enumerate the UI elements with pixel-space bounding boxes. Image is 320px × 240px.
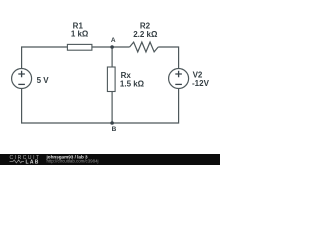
- node A junction dot: [110, 45, 114, 49]
- resistor Rx: [107, 67, 115, 92]
- svg-text:1.5 kΩ: 1.5 kΩ: [120, 79, 145, 88]
- svg-text:1 kΩ: 1 kΩ: [71, 29, 89, 38]
- wire V2 bottom to bottom rail: [112, 89, 179, 123]
- svg-text:B: B: [112, 126, 117, 133]
- voltage source V2: [169, 69, 189, 89]
- resistor R1: [67, 44, 92, 50]
- wire top rail left: V1 top to R1: [22, 47, 68, 68]
- svg-text:http://circuitlab.com/c3984j: http://circuitlab.com/c3984j: [47, 159, 99, 164]
- svg-text:5 V: 5 V: [37, 76, 50, 85]
- V2 plus sign: [175, 71, 182, 78]
- resistor R2 (zigzag): [130, 42, 159, 52]
- V1 plus sign: [18, 71, 25, 78]
- svg-text:2.2 kΩ: 2.2 kΩ: [133, 30, 158, 39]
- wire bottom rail left: node B to V1 bottom: [22, 89, 113, 123]
- wire R1 to node A to R2: [92, 46, 130, 48]
- V2 minus sign: [175, 83, 182, 85]
- node B junction dot: [110, 121, 114, 125]
- svg-text:A: A: [111, 37, 116, 44]
- wire Rx to node B: [111, 92, 113, 124]
- voltage source V1: [12, 69, 32, 89]
- V1 minus sign: [18, 83, 25, 85]
- svg-text:V2: V2: [193, 70, 203, 79]
- svg-text:LAB: LAB: [26, 159, 40, 165]
- footer logo zigzag: [10, 160, 25, 163]
- wire R2 to V2 top: [158, 47, 178, 68]
- wire node A down to Rx: [111, 47, 113, 67]
- footer bar: [0, 154, 220, 165]
- svg-text:-12V: -12V: [192, 79, 210, 88]
